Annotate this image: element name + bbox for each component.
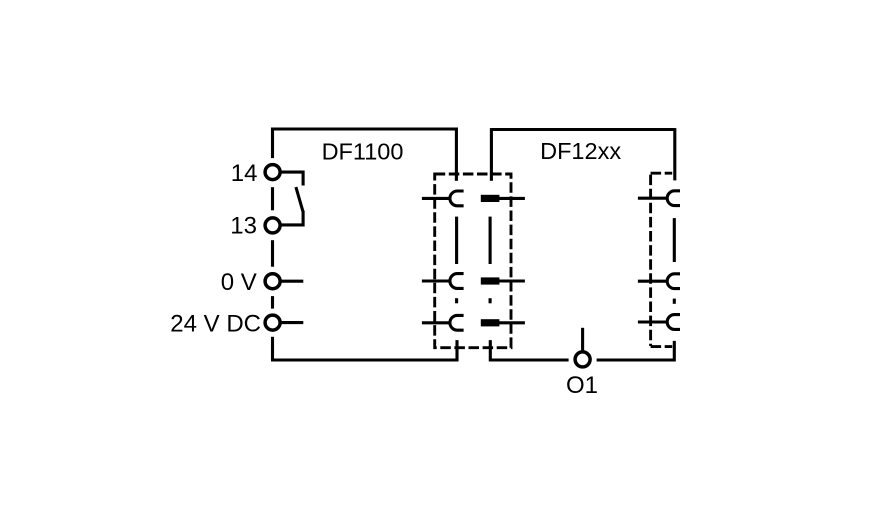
wire between terminal 14 and 13 xyxy=(271,187,274,210)
switch blade xyxy=(296,187,303,212)
field socket row3 C xyxy=(667,315,680,330)
block DF1100 outline top edge xyxy=(272,127,456,130)
connector X1 dashed outline xyxy=(435,174,511,348)
wire left edge below 24V to bottom xyxy=(271,337,274,360)
wire column between row1 and row2 field sockets xyxy=(673,218,676,262)
pin contact row2 rect xyxy=(481,277,500,284)
continuation dash between row2 and row3 field sockets xyxy=(673,299,676,304)
wire column between row1 and row2 pins xyxy=(489,217,492,264)
switch wire to 13 xyxy=(280,211,303,225)
wire between terminal 13 and 0V xyxy=(271,240,274,267)
socket contact row1 C xyxy=(450,191,464,206)
svg-text:DF12xx: DF12xx xyxy=(540,138,621,164)
field socket row3 left lead xyxy=(638,320,668,323)
terminal 13 circle xyxy=(265,218,280,233)
terminal 0V circle xyxy=(265,274,280,289)
continuation dash between row2 and row3 pins xyxy=(489,298,492,303)
svg-text:DF1100: DF1100 xyxy=(322,139,404,165)
socket contact row2 left lead xyxy=(422,279,451,282)
output O1 stub xyxy=(581,328,584,351)
pin contact row1 rect xyxy=(481,195,500,202)
block DF12xx bottom wire right of O1 xyxy=(597,341,675,360)
field socket row2 left lead xyxy=(638,280,668,283)
svg-text:14: 14 xyxy=(231,160,258,187)
pin contact row2 right lead xyxy=(499,279,525,282)
wire column between row1 and row2 sockets xyxy=(455,217,458,264)
block DF1100 bottom wire xyxy=(271,340,457,360)
svg-text:O1: O1 xyxy=(566,372,598,399)
block DF12xx right edge stub into connector xyxy=(673,128,676,180)
terminal 24V circle xyxy=(265,315,280,330)
block DF1100 right edge stub into connector xyxy=(455,128,458,181)
field socket row2 C xyxy=(667,274,680,289)
socket contact row3 left lead xyxy=(422,321,451,324)
svg-text:13: 13 xyxy=(230,213,257,240)
block DF12xx top edge xyxy=(491,128,674,131)
socket contact row2 C xyxy=(450,274,464,289)
field socket row1 left lead xyxy=(638,197,668,200)
field socket row1 C xyxy=(667,191,680,206)
switch wire from 14 xyxy=(280,172,303,185)
continuation dash between row2 and row3 sockets xyxy=(455,298,458,303)
stub wire right of 0V terminal xyxy=(280,280,303,283)
block DF12xx left edge stub into connector xyxy=(490,128,493,181)
socket contact row1 left lead xyxy=(422,197,451,200)
wire between terminal 0V and 24V xyxy=(271,296,274,309)
pin contact row3 rect xyxy=(481,319,500,326)
terminal 14 circle xyxy=(265,165,280,180)
socket contact row3 C xyxy=(450,315,464,330)
pin contact row1 right lead xyxy=(499,197,525,200)
connector X2 dashed bottom edge xyxy=(651,345,673,348)
block DF12xx bottom wire left of O1 xyxy=(490,340,568,360)
wire left edge above terminal 14 xyxy=(271,128,274,159)
svg-text:24 V DC: 24 V DC xyxy=(170,310,261,337)
output O1 circle xyxy=(575,352,590,367)
pin contact row3 right lead xyxy=(499,321,525,324)
stub wire right of 24V terminal xyxy=(280,321,303,324)
svg-text:0 V: 0 V xyxy=(221,269,257,296)
connector X2 dashed left edge xyxy=(649,175,652,346)
connector X2 dashed top edge xyxy=(651,172,673,175)
